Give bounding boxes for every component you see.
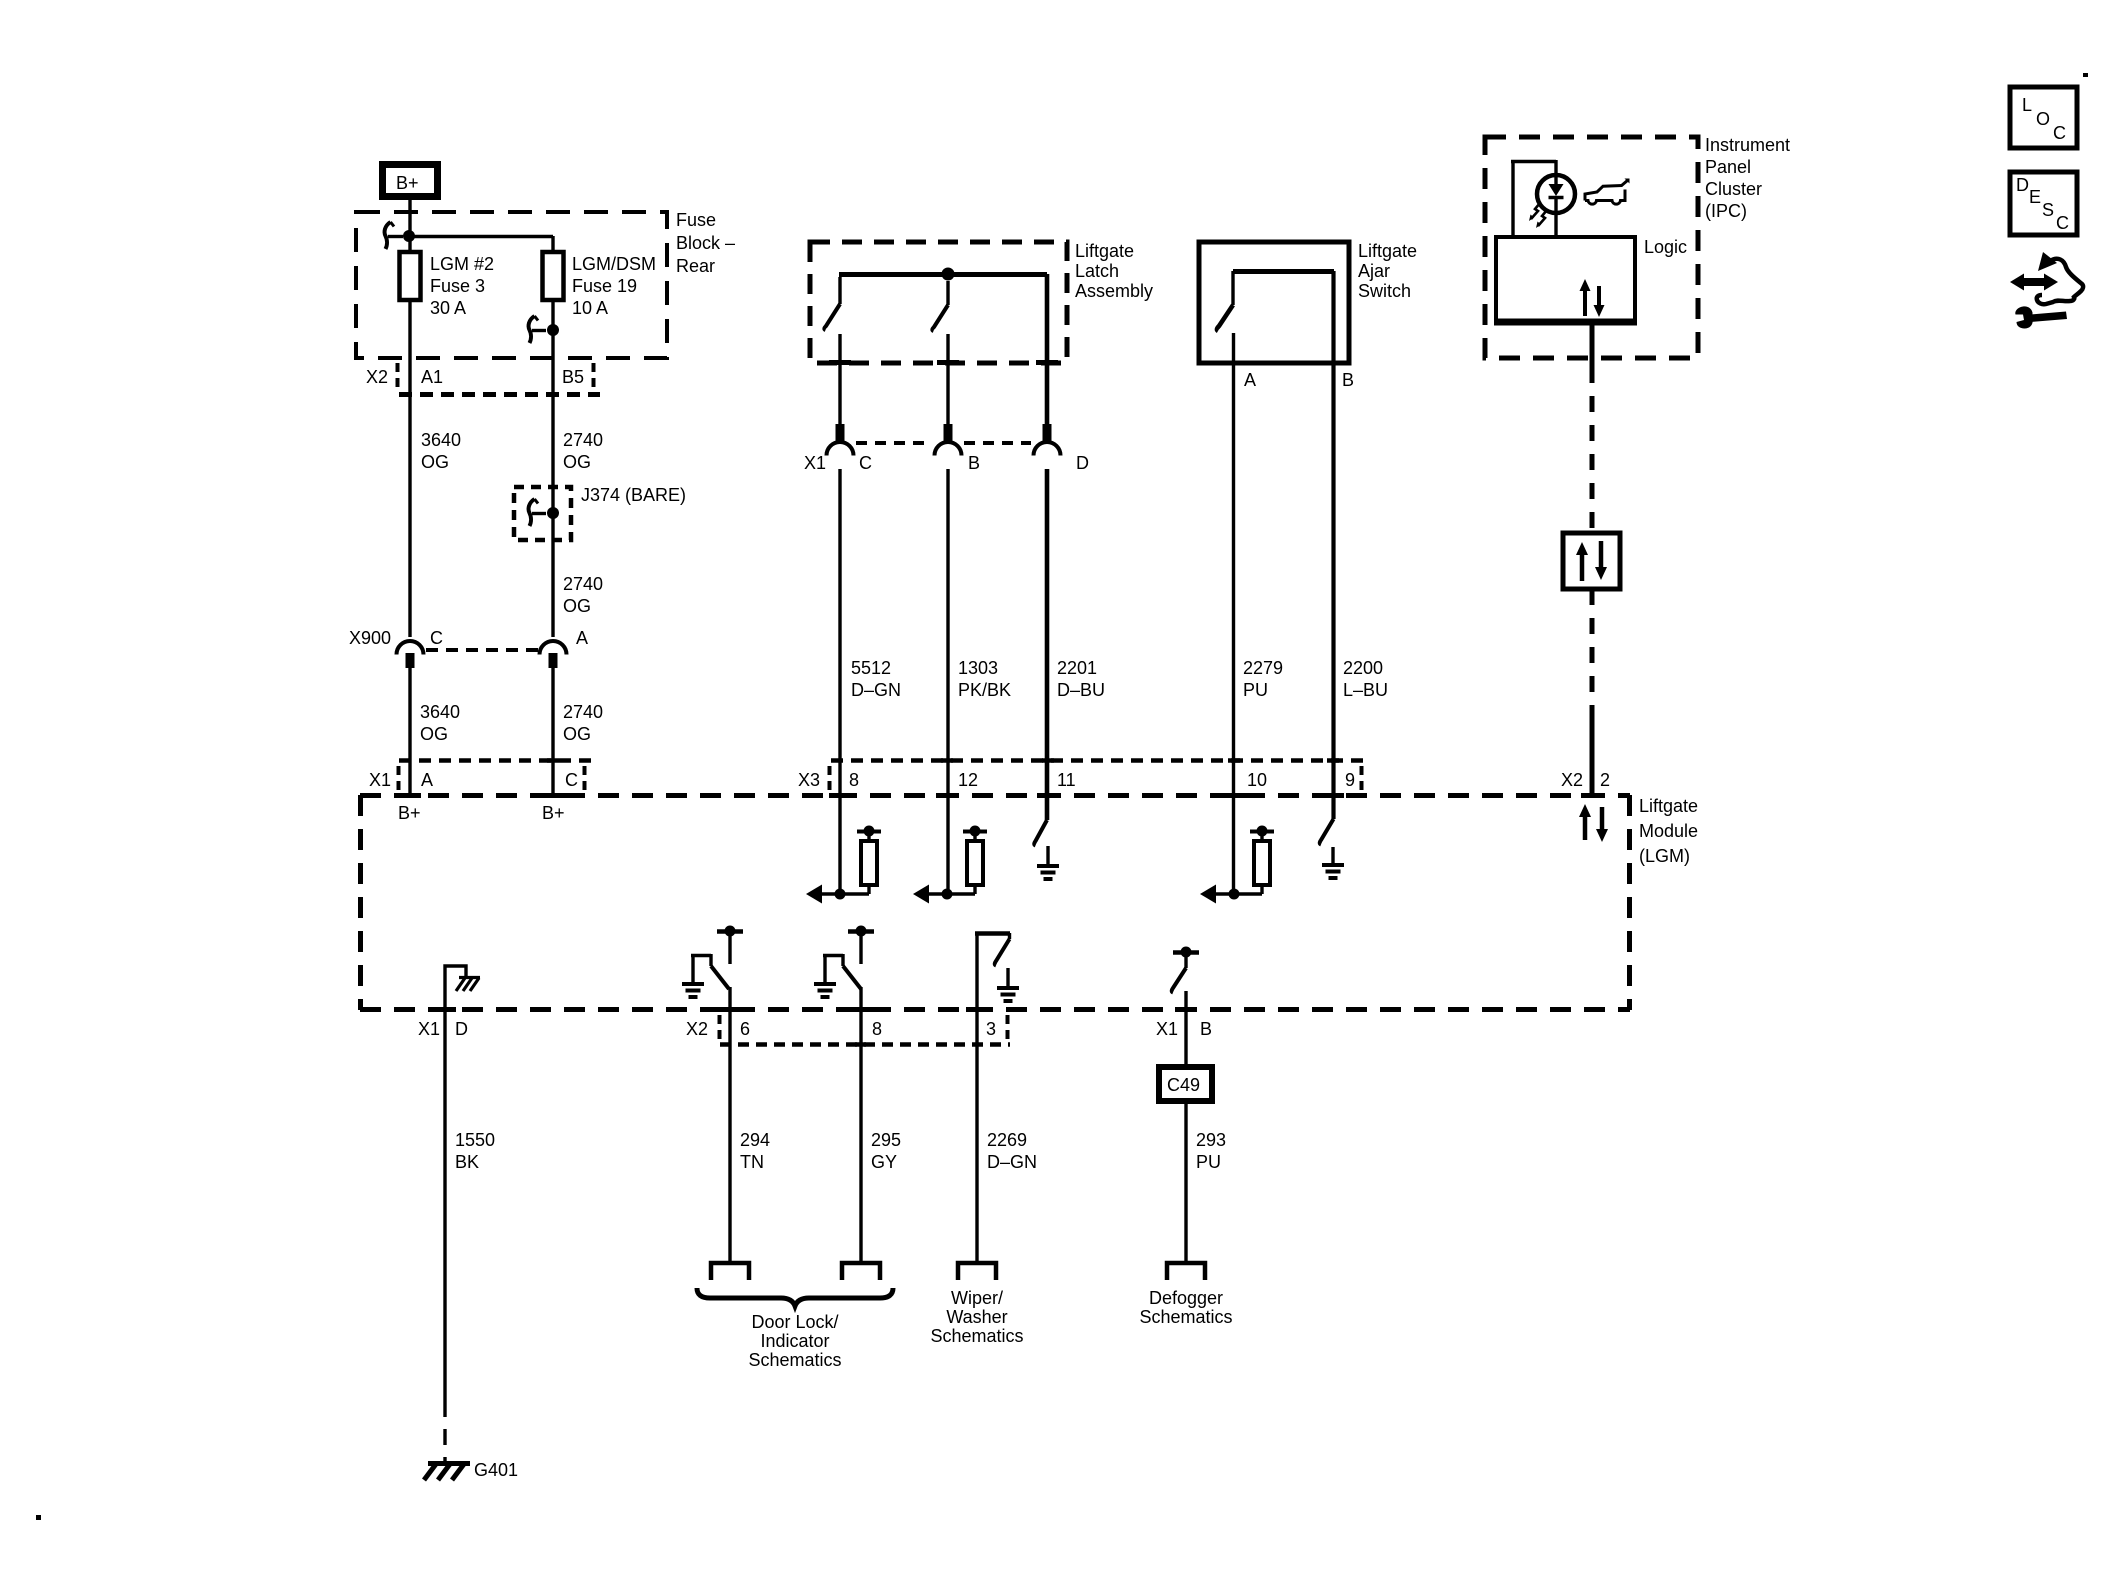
svg-text:S: S: [2042, 200, 2054, 220]
fuse F3 LGM #2 30A: [400, 252, 421, 300]
wire label 2201 D-BU: [1057, 658, 1105, 700]
svg-text:2201: 2201: [1057, 658, 1097, 678]
junction node pin 8: [835, 889, 846, 900]
svg-text:Schematics: Schematics: [748, 1350, 841, 1370]
tick marks at LGM bottom border wire crossings: [434, 1007, 1197, 1012]
svg-text:J374 (BARE): J374 (BARE): [581, 485, 686, 505]
svg-text:D–BU: D–BU: [1057, 680, 1105, 700]
logic serial arrows: [1580, 279, 1605, 317]
Liftgate Latch Assembly dashed box: [810, 242, 1067, 363]
Liftgate Ajar Switch label: [1358, 241, 1417, 301]
connector X1-B labels: [1156, 1019, 1212, 1039]
svg-text:295: 295: [871, 1130, 901, 1150]
svg-text:Panel: Panel: [1705, 157, 1751, 177]
svg-text:Switch: Switch: [1358, 281, 1411, 301]
svg-text:2740: 2740: [563, 430, 603, 450]
svg-text:2740: 2740: [563, 702, 603, 722]
logic box: [1494, 237, 1687, 322]
service icon arrow and wrench: [2010, 252, 2083, 329]
svg-text:LGM #2: LGM #2: [430, 254, 494, 274]
stray dot bottom left: [36, 1515, 41, 1520]
svg-text:B: B: [1342, 370, 1354, 390]
svg-text:X2: X2: [686, 1019, 708, 1039]
junction node pin 12: [942, 889, 953, 900]
svg-text:11: 11: [1057, 770, 1076, 790]
Instrument Panel Cluster dashed box: [1485, 137, 1698, 358]
wire X900-A down to LGM X1-C: [551, 668, 554, 795]
svg-text:X1: X1: [418, 1019, 440, 1039]
ajar switch internal frame: [1233, 271, 1334, 305]
brace door lock group: [697, 1288, 893, 1306]
wire IPC serial data: [1590, 325, 1595, 533]
ajar switch blade: [1217, 305, 1233, 331]
svg-text:10 A: 10 A: [572, 298, 608, 318]
svg-text:Liftgate: Liftgate: [1075, 241, 1134, 261]
svg-text:2740: 2740: [563, 574, 603, 594]
svg-text:X3: X3: [798, 770, 820, 790]
svg-text:D: D: [1076, 453, 1089, 473]
junction node latch bus: [942, 268, 955, 281]
fuse block rear dashed box: [356, 212, 667, 358]
svg-text:Fuse 19: Fuse 19: [572, 276, 637, 296]
svg-text:Door Lock/: Door Lock/: [751, 1312, 838, 1332]
svg-text:Fuse: Fuse: [676, 210, 716, 230]
svg-text:10: 10: [1247, 770, 1267, 790]
svg-text:2: 2: [1600, 770, 1610, 790]
switch to ground at pin 9: [1320, 819, 1344, 878]
junction node pin 10: [1229, 889, 1240, 900]
svg-text:8: 8: [849, 770, 859, 790]
label Wiper Washer Schematics: [930, 1288, 1023, 1346]
svg-text:LGM/DSM: LGM/DSM: [572, 254, 656, 274]
connector C49: [1159, 1067, 1212, 1101]
terminal wire 294: [711, 1263, 749, 1280]
svg-text:A: A: [421, 770, 433, 790]
svg-text:2200: 2200: [1343, 658, 1383, 678]
svg-text:L–BU: L–BU: [1343, 680, 1388, 700]
svg-text:C: C: [2056, 213, 2069, 233]
serial data gateway box: [1563, 533, 1620, 589]
svg-text:L: L: [2022, 95, 2032, 115]
svg-text:Cluster: Cluster: [1705, 179, 1762, 199]
svg-text:Liftgate: Liftgate: [1639, 796, 1698, 816]
ground G401: [424, 1460, 518, 1480]
svg-text:3640: 3640: [420, 702, 460, 722]
svg-text:E: E: [2029, 187, 2041, 207]
fuse F3 value label: [430, 254, 494, 318]
fuse block label: [676, 210, 735, 276]
wire latch bus to pin D: [1045, 274, 1050, 424]
svg-text:Module: Module: [1639, 821, 1698, 841]
stray dot top right: [2083, 73, 2088, 77]
svg-text:Assembly: Assembly: [1075, 281, 1153, 301]
svg-text:Liftgate: Liftgate: [1358, 241, 1417, 261]
wire label 1303 PK/BK: [958, 658, 1011, 700]
wire serial to LGM X2-2: [1590, 589, 1595, 795]
pullup resistor at pin 12: [928, 826, 987, 895]
svg-text:(IPC): (IPC): [1705, 201, 1747, 221]
connector X2 LGM right labels: [1561, 770, 1610, 790]
IPC label: [1705, 135, 1790, 221]
connector X900 inline: [349, 628, 588, 668]
Liftgate Module label: [1639, 796, 1698, 866]
svg-text:(LGM): (LGM): [1639, 846, 1690, 866]
svg-text:Washer: Washer: [946, 1307, 1007, 1327]
junction node at B+ bus: [403, 230, 415, 242]
tick marks at latch box bottom crossings: [829, 360, 1058, 365]
connector X3 row: [798, 761, 1364, 793]
svg-text:OG: OG: [563, 724, 591, 744]
wire label 1550 BK: [455, 1130, 495, 1172]
switch to ground at pin 11: [1034, 820, 1059, 879]
indicator branch loop: [1511, 160, 1556, 237]
svg-text:Indicator: Indicator: [760, 1331, 829, 1351]
svg-text:C49: C49: [1167, 1075, 1200, 1095]
svg-text:OG: OG: [421, 452, 449, 472]
svg-text:D: D: [455, 1019, 468, 1039]
label Defogger Schematics: [1139, 1288, 1232, 1327]
wire label 293 PU: [1196, 1130, 1226, 1172]
wire down to fuse 19: [551, 236, 554, 252]
wire 2279 ajar A to X3-10: [1232, 333, 1235, 894]
signal arrow pin 12: [913, 885, 929, 904]
connector X1 LGM left row: [369, 761, 599, 793]
wire X900-C down to LGM X1-A: [408, 668, 411, 795]
wire label 2740 OG upper: [563, 430, 603, 472]
wire label 3640 OG lower: [420, 702, 460, 744]
svg-text:D–GN: D–GN: [987, 1152, 1037, 1172]
svg-text:C: C: [859, 453, 872, 473]
svg-text:G401: G401: [474, 1460, 518, 1480]
svg-text:B: B: [1200, 1019, 1212, 1039]
splice J374 dashed box: [514, 487, 571, 540]
wire label 5512 D-GN: [851, 658, 901, 700]
svg-text:1303: 1303: [958, 658, 998, 678]
svg-text:Ajar: Ajar: [1358, 261, 1390, 281]
wire 5512 latch C to X3-8: [838, 469, 841, 894]
wire label 3640 OG upper: [421, 430, 461, 472]
svg-text:293: 293: [1196, 1130, 1226, 1150]
svg-text:X1: X1: [804, 453, 826, 473]
svg-text:D–GN: D–GN: [851, 680, 901, 700]
svg-text:Wiper/: Wiper/: [951, 1288, 1003, 1308]
svg-text:C: C: [565, 770, 578, 790]
svg-text:PU: PU: [1243, 680, 1268, 700]
svg-text:OG: OG: [563, 452, 591, 472]
connector X2 bottom row: [686, 1015, 1010, 1045]
switch assembly at pin 8 lower: [814, 926, 874, 998]
svg-text:A: A: [1244, 370, 1256, 390]
switch assembly at X1-B: [1172, 947, 1199, 993]
svg-text:2279: 2279: [1243, 658, 1283, 678]
switch assembly at pin 6: [682, 926, 743, 998]
fuse F19 value label: [572, 254, 656, 318]
signal arrow pin 10: [1200, 885, 1216, 904]
svg-text:GY: GY: [871, 1152, 897, 1172]
wire bus to fuse 19: [412, 235, 553, 238]
wire label 295 GY: [871, 1130, 901, 1172]
wire B+ to fuse block: [408, 200, 411, 252]
Liftgate Latch Assembly label: [1075, 241, 1153, 301]
LGM serial arrows: [1579, 804, 1608, 842]
wire latch sw2 to pin B: [946, 334, 949, 424]
svg-text:Logic: Logic: [1644, 237, 1687, 257]
svg-text:Schematics: Schematics: [1139, 1307, 1232, 1327]
LED light arrows: [1529, 203, 1547, 228]
B+ power symbol: [383, 165, 438, 197]
latch switch 1: [824, 277, 840, 330]
svg-text:Fuse 3: Fuse 3: [430, 276, 485, 296]
wire label 2740 OG middle: [563, 574, 603, 616]
wire 2200 ajar B to X3-9: [1331, 271, 1335, 819]
wire 294 pin 6 down: [728, 987, 731, 1261]
connector X2 fuse block row: [366, 363, 600, 395]
svg-text:Schematics: Schematics: [930, 1326, 1023, 1346]
DESC legend box: [2010, 172, 2077, 235]
svg-text:D: D: [2016, 175, 2029, 195]
svg-text:Block –: Block –: [676, 233, 735, 253]
svg-text:8: 8: [872, 1019, 882, 1039]
svg-text:PU: PU: [1196, 1152, 1221, 1172]
wire label 294 TN: [740, 1130, 770, 1172]
svg-text:BK: BK: [455, 1152, 479, 1172]
wire 2269 pin 3 down: [975, 933, 978, 1261]
svg-text:B+: B+: [396, 173, 419, 193]
svg-text:OG: OG: [420, 724, 448, 744]
svg-text:PK/BK: PK/BK: [958, 680, 1011, 700]
terminal wire 293: [1167, 1263, 1205, 1280]
svg-text:Defogger: Defogger: [1149, 1288, 1223, 1308]
wire label 2740 OG lower: [563, 702, 603, 744]
svg-text:294: 294: [740, 1130, 770, 1150]
svg-text:C: C: [430, 628, 443, 648]
fuse F19 LGM/DSM 10A: [543, 252, 564, 300]
Liftgate Ajar Switch box: [1199, 242, 1349, 363]
svg-text:C: C: [2053, 123, 2066, 143]
pullup resistor at pin 8: [821, 826, 881, 895]
svg-text:TN: TN: [740, 1152, 764, 1172]
wire 2201 latch D to X3-11: [1045, 469, 1050, 820]
splice J374 clip: [529, 499, 546, 526]
wire 1550 X1-D down: [443, 1010, 446, 1463]
svg-text:B+: B+: [398, 803, 421, 823]
svg-text:OG: OG: [563, 596, 591, 616]
terminal wire 295: [842, 1263, 880, 1280]
switch assembly at pin 3: [975, 933, 1019, 1001]
svg-text:1550: 1550: [455, 1130, 495, 1150]
wire 1303 latch B to X3-12: [946, 469, 949, 894]
tick marks at LGM top border wire crossings: [399, 793, 1603, 798]
signal arrow pin 8: [806, 885, 822, 904]
svg-text:B+: B+: [542, 803, 565, 823]
wire fuse 3 down through X2-A1: [408, 300, 411, 637]
wire latch sw1 to pin C: [838, 334, 841, 424]
Liftgate Module dashed box: [360, 795, 1630, 1010]
svg-text:X900: X900: [349, 628, 391, 648]
svg-text:B: B: [968, 453, 980, 473]
connector X1 latch row: [804, 424, 1089, 473]
svg-text:Rear: Rear: [676, 256, 715, 276]
svg-text:3: 3: [986, 1019, 996, 1039]
clip terminal B5 output of fuse 19: [529, 316, 546, 343]
liftgate car icon: [1585, 179, 1630, 205]
svg-text:2269: 2269: [987, 1130, 1027, 1150]
svg-text:X1: X1: [1156, 1019, 1178, 1039]
svg-text:Latch: Latch: [1075, 261, 1119, 281]
wire 295 pin 8 down: [859, 987, 862, 1261]
wire label 2200 L-BU: [1343, 658, 1388, 700]
svg-text:A1: A1: [421, 367, 443, 387]
svg-text:X2: X2: [1561, 770, 1583, 790]
svg-text:B5: B5: [562, 367, 584, 387]
internal ground at X1-D: [445, 966, 480, 1010]
pullup resistor at pin 10: [1215, 826, 1274, 895]
wire label 2269 D-GN: [987, 1130, 1037, 1172]
junction node at fuse 19 output: [547, 324, 559, 336]
latch switch 2: [932, 281, 948, 331]
svg-text:3640: 3640: [421, 430, 461, 450]
LOC legend box: [2010, 87, 2077, 148]
wire 293 below C49: [1184, 1101, 1187, 1261]
terminal wire 2269: [958, 1263, 996, 1280]
wire fuse 19 down: [551, 300, 554, 637]
wire X1-B down to C49: [1184, 991, 1187, 1067]
svg-text:X1: X1: [369, 770, 391, 790]
svg-text:30 A: 30 A: [430, 298, 466, 318]
svg-text:6: 6: [740, 1019, 750, 1039]
svg-text:X2: X2: [366, 367, 388, 387]
label Door Lock Indicator Schematics: [748, 1312, 841, 1370]
clip terminal at fuse block input: [385, 222, 403, 249]
connector X1-D labels: [418, 1019, 468, 1039]
latch internal bus wire: [839, 272, 1047, 277]
svg-text:12: 12: [958, 770, 978, 790]
svg-text:O: O: [2036, 109, 2050, 129]
svg-text:9: 9: [1345, 770, 1355, 790]
svg-text:Instrument: Instrument: [1705, 135, 1790, 155]
svg-text:A: A: [576, 628, 588, 648]
LED indicator lamp: [1537, 175, 1575, 213]
svg-text:5512: 5512: [851, 658, 891, 678]
junction node J374: [547, 507, 559, 519]
wire label 2279 PU: [1243, 658, 1283, 700]
